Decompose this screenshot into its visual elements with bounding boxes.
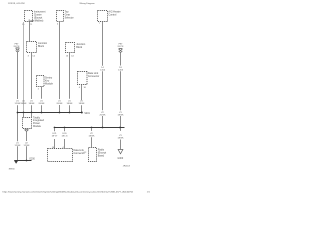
left in-line connector symbol — [16, 48, 20, 52]
svg-text:12 BK: 12 BK — [15, 145, 21, 147]
svg-text:JR41-8: JR41-8 — [123, 165, 131, 167]
wire label D21 — [52, 133, 58, 138]
TIPM U8 (dashed box) — [23, 118, 32, 129]
svg-text:12 BK: 12 BK — [24, 145, 30, 147]
svg-text:8W30: 8W30 — [9, 168, 15, 170]
svg-text:Wiring Diagram: Wiring Diagram — [80, 2, 95, 5]
svg-text:S201: S201 — [84, 113, 90, 115]
wire left feed down to bus and ground — [17, 52, 19, 160]
U5 label — [76, 43, 86, 49]
U3 wire connector label C104 — [100, 67, 106, 72]
wire gauge labels above main bus — [15, 101, 85, 106]
ground wire labels — [15, 143, 30, 148]
svg-text:Connector: Connector — [88, 75, 99, 78]
junction dots on splice bus — [54, 127, 121, 129]
wire U6 to splice S201 — [81, 85, 83, 113]
wire U3 to splice bus — [102, 22, 104, 128]
svg-text:Base): Base) — [98, 154, 105, 157]
wire U7 to bus — [41, 87, 43, 113]
splice bus S2 — [55, 127, 125, 129]
svg-text:G300: G300 — [117, 158, 123, 160]
U3 label — [108, 11, 120, 17]
svg-text:20 BK: 20 BK — [100, 115, 106, 117]
svg-text:18 BK: 18 BK — [67, 103, 73, 105]
U3 wire label Z2 20BK — [100, 112, 106, 117]
svg-text:18 BK: 18 BK — [89, 135, 95, 137]
U10 label — [98, 149, 107, 158]
svg-text:C104: C104 — [100, 70, 106, 72]
wire splice bus to ground G300 — [120, 128, 122, 149]
svg-text:18 BK: 18 BK — [79, 103, 85, 105]
data link connector U9 (wide dashed box) — [48, 149, 73, 162]
U6 label — [88, 72, 99, 78]
wire bus to U8 pin B — [31, 113, 33, 118]
right wire connector label C105 — [118, 67, 124, 72]
a/c heater control U3 (dashed box) — [98, 11, 108, 22]
svg-text:Block: Block — [38, 45, 45, 48]
ground G200 bar — [14, 160, 31, 162]
wire U2 to bus — [59, 22, 61, 113]
wire label D20 — [62, 133, 68, 138]
junction block U5 (dashed box) — [66, 43, 75, 53]
ground junction dot — [26, 160, 28, 162]
ground G300 symbol (open triangle) — [118, 150, 123, 154]
U8 label — [33, 116, 45, 128]
U7 label — [45, 77, 54, 86]
svg-text:Module: Module — [33, 125, 42, 128]
wire U1 pin10 to junction block — [29, 22, 31, 42]
right wire label Z1 — [118, 112, 124, 117]
svg-text:18 BK: 18 BK — [118, 137, 124, 139]
svg-text:20 BK: 20 BK — [39, 103, 45, 105]
wire label Z2 — [89, 133, 95, 138]
wire splice bus to DLC pin 16 — [54, 128, 56, 148]
svg-text:Selector: Selector — [65, 16, 74, 19]
svg-text:C105: C105 — [118, 70, 124, 72]
wire bus to U8 pin A — [23, 113, 25, 118]
svg-text:Control: Control — [108, 13, 116, 16]
top fuse module U2 (dashed box) — [57, 11, 64, 22]
sentry key module U7 (dashed box) — [37, 76, 45, 87]
svg-text:18 BK: 18 BK — [21, 103, 27, 105]
wire U5 to bus — [69, 53, 71, 113]
svg-text:https://www.factory-manuals.co: https://www.factory-manuals.com/viewer/c… — [3, 190, 134, 193]
svg-text:20 PK: 20 PK — [118, 46, 124, 48]
wire splice bus to radio ground — [91, 128, 93, 147]
wire splice bus to DLC pin 4 — [64, 128, 66, 148]
wire label Z1 to G300 — [118, 135, 124, 140]
main ground bus — [17, 112, 83, 114]
svg-text:18 BK: 18 BK — [118, 115, 124, 117]
U4 label — [38, 42, 48, 48]
U9 label — [74, 149, 85, 155]
U8 bottom connector symbol — [25, 129, 29, 131]
U2 label — [65, 11, 74, 20]
radio U10 (dashed box) — [89, 148, 97, 162]
right feed wire label — [118, 44, 124, 49]
data link connector U6 (dashed box) — [78, 72, 88, 85]
left feed wire label F87 — [14, 44, 20, 49]
instrument cluster U1 label — [29, 11, 46, 23]
right in-line connector symbol — [119, 48, 123, 52]
wire U8 to ground — [26, 131, 28, 160]
junction dots on main bus — [17, 112, 83, 114]
junction block U4 (dashed box) — [27, 42, 37, 53]
svg-text:18 LG: 18 LG — [62, 136, 68, 138]
svg-text:Base/Midline): Base/Midline) — [29, 19, 44, 22]
svg-text:18 BK: 18 BK — [29, 103, 35, 105]
wire right feed to splice bus — [120, 53, 122, 128]
svg-text:Module: Module — [45, 82, 54, 85]
ground G200 triangle — [14, 161, 18, 164]
svg-text:G200: G200 — [29, 158, 35, 160]
svg-text:Block: Block — [76, 46, 83, 49]
wire U1 pin9 to TIPM (light) — [23, 22, 25, 113]
wire U4 to bus — [31, 53, 33, 113]
svg-text:18 VT: 18 VT — [52, 136, 58, 138]
svg-text:20 BK: 20 BK — [57, 103, 63, 105]
instrument cluster U1 (dashed box) — [25, 11, 33, 22]
svg-text:1/23/19, 4:55 PM: 1/23/19, 4:55 PM — [8, 3, 25, 5]
